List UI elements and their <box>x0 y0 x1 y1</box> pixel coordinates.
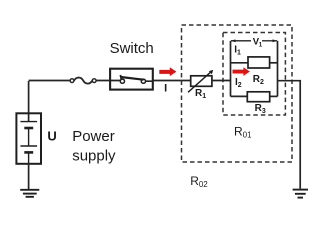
wire battery to ground <box>28 164 30 190</box>
svg-text:Power: Power <box>72 128 115 145</box>
resistor R1 (variable) <box>188 70 213 92</box>
left junction vertical <box>230 41 232 97</box>
wire from battery top up and right to fuse <box>29 81 71 122</box>
wire R1 to left node <box>212 80 231 82</box>
voltage dimension V1 <box>231 39 277 42</box>
battery box (power supply U) <box>16 113 41 164</box>
svg-text:Switch: Switch <box>110 40 154 57</box>
ground (right) <box>293 190 308 198</box>
svg-text:supply: supply <box>72 148 116 165</box>
svg-text:I: I <box>164 82 167 94</box>
fuse (wavy break symbol) <box>70 78 96 84</box>
red arrow (current I2) <box>233 67 250 76</box>
switch S1 box <box>110 69 153 90</box>
dashed box R02 <box>182 25 293 162</box>
battery cells <box>20 122 37 164</box>
switch contacts and blade <box>120 75 145 83</box>
wire fuse to switch <box>96 80 153 83</box>
wire top branch right <box>270 62 278 64</box>
ground (left) <box>20 190 39 197</box>
right junction vertical <box>277 41 279 97</box>
wire switch to R1 <box>153 80 191 82</box>
svg-text:U: U <box>47 129 56 144</box>
resistor R3 <box>247 92 269 102</box>
exit wire right and down to ground <box>278 81 301 189</box>
wire top branch left <box>231 62 249 64</box>
wire bottom branch right <box>270 95 278 97</box>
wire bottom branch left <box>231 95 248 97</box>
red arrow (current I) <box>159 67 176 76</box>
resistor R2 <box>248 57 270 68</box>
dashed box R01 <box>223 33 285 116</box>
